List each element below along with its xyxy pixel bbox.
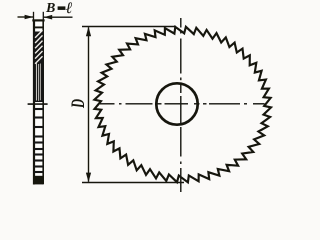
bore circle [156,83,197,124]
svg-text:ℓ: ℓ [65,0,73,17]
side view disc body outline [32,20,44,185]
D dimension bottom extension line [82,182,184,184]
B dimension extension lines [34,12,44,21]
B dimension left arrow [18,15,34,20]
horizontal centerline [100,103,265,105]
svg-text:D: D [68,99,88,109]
B dimension right arrow [44,15,73,20]
D dimension top extension line [82,26,176,28]
vertical centerline [180,18,182,192]
D dimension line with arrows [86,27,91,183]
side view tooth rungs [33,109,44,172]
saw blade teeth ring [94,27,271,183]
side view hatched section (dark scan) [33,30,43,102]
svg-text:B: B [45,1,55,16]
side view centerline [28,103,48,105]
side view bottom solid segment [33,176,43,185]
label B = l [45,0,73,17]
paper background [0,0,288,202]
side view top tooth line [33,26,44,28]
